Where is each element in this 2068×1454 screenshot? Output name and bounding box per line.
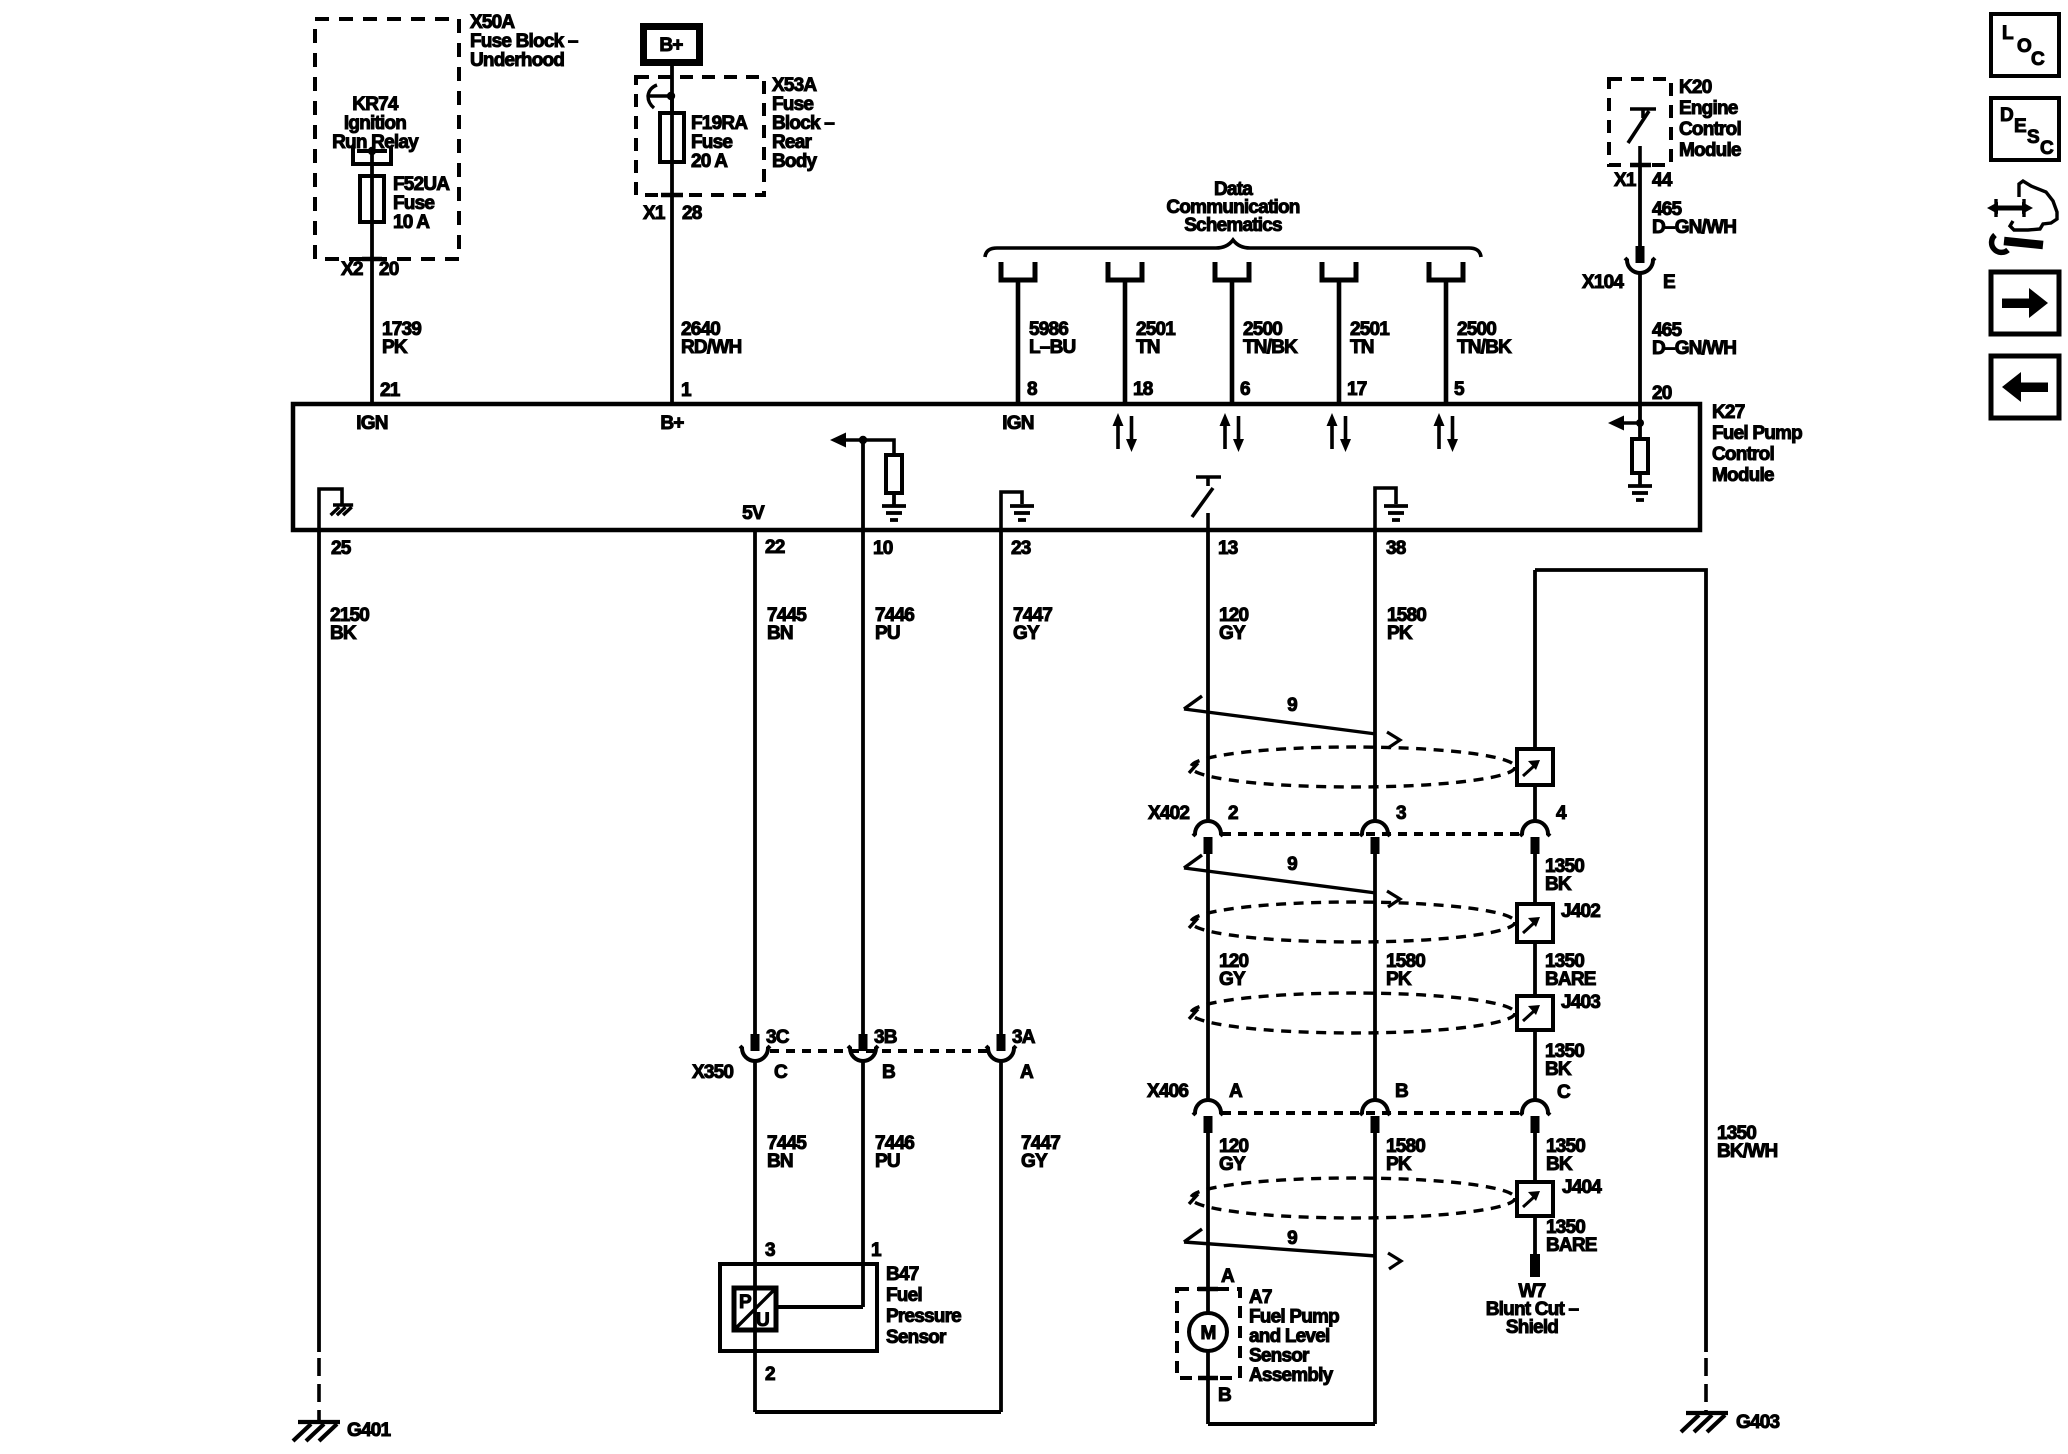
icon next arrow box — [1991, 272, 2059, 334]
pin 10 internal output arrow — [830, 433, 894, 456]
X53A feed hook — [647, 85, 675, 108]
svg-text:D–GN/WH: D–GN/WH — [1652, 338, 1736, 359]
svg-text:20 A: 20 A — [691, 151, 728, 172]
label 1580 PK mid — [1386, 951, 1425, 990]
svg-text:GY: GY — [1013, 623, 1040, 644]
wire 2500 TN/BK — [1444, 280, 1449, 406]
svg-text:G403: G403 — [1736, 1412, 1780, 1433]
svg-text:S: S — [2027, 127, 2039, 148]
svg-text:PK: PK — [1386, 969, 1412, 990]
fuse F52UA — [360, 176, 384, 222]
splice (unnamed top) — [1517, 749, 1553, 785]
connector X402 terminal 3 — [1360, 821, 1390, 854]
connector X402 terminal 4 — [1520, 821, 1550, 854]
svg-text:1: 1 — [681, 380, 692, 401]
label 465 D-GN/WH — [1652, 320, 1736, 359]
svg-text:PU: PU — [875, 623, 900, 644]
splice J403 — [1517, 992, 1600, 1030]
data connector bracket at pin 17 — [1322, 262, 1356, 280]
label 1350 BK — [1545, 1041, 1584, 1080]
wire dashed to ground — [317, 1358, 321, 1420]
X50A label — [470, 12, 578, 71]
svg-text:BK: BK — [1546, 1154, 1573, 1175]
svg-text:38: 38 — [1386, 538, 1406, 559]
svg-text:A: A — [1229, 1081, 1243, 1102]
wire into motor — [1206, 1289, 1210, 1313]
wire 1350 BK (J403 to C) — [1533, 1030, 1537, 1100]
svg-text:Pressure: Pressure — [886, 1306, 961, 1327]
svg-text:K20: K20 — [1679, 77, 1712, 98]
ECM K20 dashed box — [1609, 79, 1671, 165]
wire 1580 PK lower — [1373, 1133, 1377, 1424]
svg-text:X2: X2 — [341, 259, 363, 280]
wire 2500 TN/BK — [1230, 280, 1235, 406]
label 465 D-GN/WH — [1652, 199, 1736, 238]
border ticks — [1198, 1289, 1218, 1378]
X350 pin labels 3A/A — [1012, 1027, 1036, 1083]
X1 pin 44 labels — [1614, 170, 1673, 191]
svg-text:A7: A7 — [1249, 1287, 1272, 1308]
svg-text:BK: BK — [330, 623, 357, 644]
svg-text:L: L — [2002, 23, 2014, 44]
data connector bracket at pin 8 — [1001, 262, 1035, 280]
shield drain top wire — [1535, 570, 1706, 1352]
A7 label — [1249, 1287, 1339, 1386]
relay KR74 contact symbol — [353, 147, 391, 164]
connector X350 terminal A — [986, 1034, 1016, 1061]
svg-text:Shield: Shield — [1506, 1317, 1558, 1338]
svg-text:X406: X406 — [1147, 1081, 1188, 1102]
F52UA label — [393, 174, 450, 233]
svg-text:U: U — [756, 1310, 769, 1331]
svg-text:X53A: X53A — [772, 75, 817, 96]
B47 label — [886, 1264, 961, 1348]
svg-text:B: B — [1395, 1081, 1408, 1102]
svg-text:Fuel Pump: Fuel Pump — [1712, 423, 1802, 444]
svg-text:PK: PK — [1386, 1154, 1412, 1175]
svg-text:BARE: BARE — [1546, 1235, 1597, 1256]
svg-text:BARE: BARE — [1545, 969, 1596, 990]
wire motor to return — [1206, 1351, 1210, 1424]
pin 20 internal resistor — [1632, 439, 1648, 473]
label 120 GY — [1219, 605, 1249, 644]
svg-text:3: 3 — [765, 1240, 775, 1261]
svg-text:22: 22 — [765, 537, 785, 558]
wire pin 2 down — [753, 1349, 757, 1412]
svg-text:X1: X1 — [643, 203, 666, 224]
splice J402 — [1517, 901, 1600, 942]
svg-text:X50A: X50A — [470, 12, 515, 33]
data connector bracket at pin 6 — [1215, 262, 1249, 280]
svg-text:Body: Body — [772, 151, 818, 172]
fuel pump control module K27 box — [293, 404, 1700, 530]
arrows pin 17 — [1327, 413, 1352, 452]
label 2500 TN/BK — [1457, 319, 1512, 358]
fuse block X53A dashed box — [636, 77, 764, 195]
wire 5986 L–BU — [1016, 280, 1021, 406]
connector X406 terminal B — [1360, 1100, 1390, 1133]
svg-text:18: 18 — [1133, 379, 1153, 400]
label 1350 BK — [1545, 856, 1584, 895]
fuel pump A7 dashed box — [1177, 1289, 1240, 1378]
label 7447 GY — [1013, 605, 1052, 644]
wire 465 D-GN/WH lower — [1638, 273, 1642, 406]
svg-text:Schematics: Schematics — [1184, 215, 1282, 236]
wire 2150 BK — [317, 530, 321, 1352]
connector X350 terminal C — [740, 1034, 770, 1061]
svg-text:1: 1 — [871, 1240, 882, 1261]
connector X406 dashed line — [1222, 1111, 1521, 1115]
X53A label — [772, 75, 834, 172]
pin 20 resistor ground — [1628, 473, 1652, 500]
svg-text:C: C — [1557, 1082, 1571, 1103]
svg-text:D–GN/WH: D–GN/WH — [1652, 217, 1736, 238]
wire 7446 PU lower — [861, 1061, 865, 1307]
svg-text:J403: J403 — [1561, 992, 1600, 1013]
svg-text:O: O — [2017, 36, 2031, 57]
label 1580 PK — [1386, 1136, 1425, 1175]
label 5986 L–BU — [1029, 319, 1075, 358]
label 1350 BK — [1546, 1136, 1585, 1175]
svg-text:44: 44 — [1652, 170, 1673, 191]
svg-text:GY: GY — [1219, 623, 1246, 644]
svg-text:B: B — [882, 1062, 895, 1083]
svg-text:TN: TN — [1136, 337, 1160, 358]
X350 pin labels 3B/B — [874, 1027, 897, 1083]
svg-text:X1: X1 — [1614, 170, 1637, 191]
label 7445 BN — [767, 1133, 807, 1172]
svg-text:Module: Module — [1712, 465, 1774, 486]
label 7445 BN — [767, 605, 807, 644]
pin 23 internal ground — [1001, 492, 1034, 528]
svg-text:Fuel Pump: Fuel Pump — [1249, 1307, 1339, 1328]
connector X350 terminal B — [848, 1034, 878, 1061]
svg-text:J402: J402 — [1561, 901, 1600, 922]
ground G403 — [1681, 1412, 1780, 1433]
wire fuse to X1-28 — [670, 96, 674, 195]
label 2501 TN — [1350, 319, 1390, 358]
svg-text:Fuse: Fuse — [772, 94, 813, 115]
svg-text:F52UA: F52UA — [393, 174, 450, 195]
svg-text:Block –: Block – — [772, 113, 834, 134]
shield loop to J402 — [1189, 902, 1515, 942]
label 2150 BK — [330, 605, 369, 644]
svg-text:Fuse: Fuse — [393, 193, 434, 214]
svg-text:Fuel: Fuel — [886, 1285, 922, 1306]
svg-text:Ignition: Ignition — [344, 113, 406, 134]
twisted lead note 9 (mid) — [1184, 854, 1400, 907]
icon LOC box — [1991, 14, 2059, 76]
svg-text:B+: B+ — [660, 413, 684, 434]
return wire bottom — [755, 1410, 1001, 1414]
connector X104 — [1625, 246, 1655, 273]
wire 1580 PK mid — [1373, 854, 1377, 1100]
border tick — [661, 193, 683, 198]
K20 label — [1679, 77, 1741, 161]
svg-text:X402: X402 — [1148, 803, 1189, 824]
pin 13 internal switch — [1192, 477, 1221, 528]
motor M — [1189, 1313, 1227, 1351]
label 2500 TN/BK — [1243, 319, 1298, 358]
svg-text:3B: 3B — [874, 1027, 897, 1048]
svg-text:Control: Control — [1712, 444, 1774, 465]
svg-text:G401: G401 — [347, 1420, 392, 1441]
svg-text:13: 13 — [1218, 538, 1238, 559]
K27 label — [1712, 402, 1802, 486]
pin 20 internal arrow — [1608, 416, 1644, 431]
svg-text:2: 2 — [765, 1364, 775, 1385]
wire dashed to G403 — [1704, 1358, 1708, 1412]
wire B+ to fuse block — [670, 64, 674, 113]
svg-text:GY: GY — [1219, 969, 1246, 990]
svg-text:9: 9 — [1287, 854, 1297, 875]
brace — [985, 240, 1481, 257]
svg-text:L–BU: L–BU — [1029, 337, 1075, 358]
wire 1580 PK pin 38 — [1373, 530, 1377, 821]
svg-text:6: 6 — [1240, 379, 1250, 400]
X1 pin 28 labels — [643, 203, 702, 224]
svg-text:BN: BN — [767, 1151, 793, 1172]
svg-text:IGN: IGN — [356, 413, 387, 434]
wire 1739 PK — [370, 259, 374, 406]
label 1350 BK/WH — [1717, 1123, 1777, 1162]
svg-text:K27: K27 — [1712, 402, 1745, 423]
svg-text:A: A — [1020, 1062, 1034, 1083]
X406 labels — [1147, 1081, 1571, 1103]
K20 driver switch symbol — [1628, 109, 1656, 165]
pin 10 internal wire — [861, 440, 865, 528]
svg-text:21: 21 — [380, 380, 401, 401]
splice J404 — [1517, 1177, 1602, 1216]
svg-text:X350: X350 — [692, 1062, 733, 1083]
svg-text:3: 3 — [1396, 803, 1406, 824]
svg-text:TN/BK: TN/BK — [1457, 337, 1512, 358]
pin 10 resistor ground — [882, 493, 906, 520]
svg-text:Underhood: Underhood — [470, 50, 564, 71]
return wire bottom — [1208, 1422, 1375, 1426]
wire 2501 TN — [1337, 280, 1342, 406]
svg-text:RD/WH: RD/WH — [681, 337, 741, 358]
label 120 GY mid — [1219, 951, 1249, 990]
svg-text:Module: Module — [1679, 140, 1741, 161]
svg-text:C: C — [774, 1062, 788, 1083]
svg-text:GY: GY — [1021, 1151, 1048, 1172]
svg-text:20: 20 — [379, 259, 399, 280]
svg-text:28: 28 — [682, 203, 702, 224]
svg-text:TN/BK: TN/BK — [1243, 337, 1298, 358]
wire 1350 BARE (J402 to J403) — [1533, 942, 1537, 996]
svg-text:8: 8 — [1027, 379, 1037, 400]
pin 10 internal resistor — [886, 455, 902, 493]
svg-text:BK: BK — [1545, 1059, 1572, 1080]
shield wire upper — [1533, 570, 1537, 749]
wire 2640 RD/WH — [670, 195, 674, 406]
svg-text:17: 17 — [1347, 379, 1367, 400]
border tick — [362, 257, 382, 262]
KR74 label — [332, 94, 419, 153]
connector X406 terminal C — [1520, 1100, 1550, 1133]
svg-text:C: C — [2031, 49, 2045, 70]
svg-text:2: 2 — [1228, 803, 1238, 824]
pin 38 internal ground — [1375, 488, 1408, 528]
svg-text:IGN: IGN — [1002, 413, 1033, 434]
svg-text:Engine: Engine — [1679, 98, 1738, 119]
svg-text:and Level: and Level — [1249, 1326, 1329, 1347]
fuel pressure sensor B47 box — [720, 1264, 877, 1351]
svg-text:9: 9 — [1287, 695, 1297, 716]
arrows pin 5 — [1434, 413, 1459, 452]
svg-text:5V: 5V — [742, 503, 765, 524]
svg-text:4: 4 — [1556, 803, 1567, 824]
svg-text:C: C — [2040, 138, 2054, 159]
wire 120 GY lower — [1206, 1133, 1210, 1289]
svg-text:PK: PK — [1387, 623, 1413, 644]
X104 labels — [1582, 272, 1675, 293]
connector X406 terminal A — [1193, 1100, 1223, 1133]
svg-text:BN: BN — [767, 623, 793, 644]
wire 7447 GY pin 23 — [999, 530, 1003, 1036]
svg-text:Fuse: Fuse — [691, 132, 732, 153]
label 1350 BARE — [1546, 1217, 1597, 1256]
arrows pin 18 — [1113, 413, 1138, 452]
svg-text:Assembly: Assembly — [1249, 1365, 1334, 1386]
X2 pin 20 labels — [341, 259, 399, 280]
label 7446 PU — [875, 1133, 914, 1172]
X402 labels — [1148, 803, 1567, 824]
svg-text:20: 20 — [1652, 383, 1672, 404]
svg-text:B+: B+ — [659, 35, 683, 56]
label 7446 PU — [875, 605, 914, 644]
wire 120 GY pin 13 — [1206, 530, 1210, 821]
arrows pin 6 — [1220, 413, 1245, 452]
pin 25 internal chassis ground — [319, 489, 353, 528]
label 120 GY — [1219, 1136, 1249, 1175]
svg-text:P: P — [739, 1292, 752, 1313]
svg-text:D: D — [2000, 105, 2013, 126]
wire 1350 BK (4 to J402) — [1533, 854, 1537, 904]
battery B+ symbol — [644, 27, 700, 63]
icon service tool — [1987, 181, 2057, 252]
connector X402 dashed line — [1222, 832, 1521, 836]
svg-text:B47: B47 — [886, 1264, 919, 1285]
svg-text:Run Relay: Run Relay — [332, 132, 419, 153]
svg-text:Sensor: Sensor — [1249, 1346, 1310, 1367]
wire 2501 TN — [1123, 280, 1128, 406]
wire 7445 BN lower — [753, 1061, 757, 1264]
pin 20 internal wire — [1638, 404, 1642, 439]
label 7447 GY — [1021, 1133, 1060, 1172]
svg-text:10: 10 — [873, 538, 893, 559]
shield loop to J404 — [1189, 1178, 1515, 1218]
wire 7446 PU pin 10 — [861, 530, 865, 1036]
svg-text:E: E — [1663, 272, 1675, 293]
svg-text:BK/WH: BK/WH — [1717, 1141, 1777, 1162]
svg-text:23: 23 — [1011, 538, 1031, 559]
shield loop to J403 — [1189, 993, 1515, 1033]
twisted lead note 9 (bottom) — [1184, 1228, 1401, 1269]
icon back arrow box — [1991, 356, 2059, 418]
fuse block X50A dashed box — [315, 19, 459, 259]
svg-text:F19RA: F19RA — [691, 113, 748, 134]
wire 120 GY mid — [1206, 854, 1210, 1100]
svg-text:X104: X104 — [1582, 272, 1624, 293]
svg-text:Sensor: Sensor — [886, 1327, 947, 1348]
wire pin 3 through sensor — [753, 1264, 757, 1349]
svg-text:A: A — [1221, 1266, 1235, 1287]
svg-text:Rear: Rear — [772, 132, 812, 153]
wire relay to fuse — [370, 151, 374, 259]
wire 1350 BK (C to J404) — [1533, 1133, 1537, 1182]
wire 465 D-GN/WH upper — [1638, 165, 1642, 248]
svg-text:9: 9 — [1287, 1228, 1297, 1249]
svg-text:GY: GY — [1219, 1154, 1246, 1175]
fuse F19RA — [660, 113, 684, 162]
data communication schematics label — [1166, 179, 1299, 236]
X350 pin labels 3C/C — [766, 1027, 790, 1083]
wire 7447 GY lower — [999, 1061, 1003, 1412]
wire pin1 to transducer — [776, 1305, 863, 1309]
icon DESC box — [1991, 98, 2059, 160]
bottom pin labels — [331, 537, 1406, 559]
ground G401 — [293, 1420, 392, 1441]
svg-text:PK: PK — [382, 337, 408, 358]
svg-text:J404: J404 — [1562, 1177, 1602, 1198]
label 2501 TN — [1136, 319, 1176, 358]
twisted lead note 9 (top) — [1184, 695, 1400, 748]
svg-text:TN: TN — [1350, 337, 1374, 358]
svg-text:5: 5 — [1454, 379, 1465, 400]
svg-text:Control: Control — [1679, 119, 1741, 140]
svg-text:PU: PU — [875, 1151, 900, 1172]
wire splice to X402-4 — [1533, 785, 1537, 821]
connector X402 terminal 2 — [1193, 821, 1223, 854]
svg-text:3A: 3A — [1012, 1027, 1036, 1048]
wire 7445 BN pin 22 — [753, 530, 757, 1036]
blunt cut W7 terminal — [1530, 1254, 1540, 1277]
label 1350 BARE — [1545, 951, 1596, 990]
svg-text:10 A: 10 A — [393, 212, 430, 233]
label 2640 RD/WH — [681, 319, 741, 358]
svg-text:3C: 3C — [766, 1027, 790, 1048]
svg-text:Fuse Block –: Fuse Block – — [470, 31, 578, 52]
label 1739 PK — [382, 319, 421, 358]
F19RA label — [691, 113, 748, 172]
B47 P/U transducer — [734, 1288, 776, 1331]
data connector bracket at pin 18 — [1108, 262, 1142, 280]
label 1580 PK — [1387, 605, 1426, 644]
svg-text:B: B — [1218, 1385, 1231, 1406]
svg-text:25: 25 — [331, 538, 352, 559]
W7 label — [1486, 1281, 1579, 1338]
shield loop to splice (top) — [1189, 747, 1515, 787]
data connector bracket at pin 5 — [1429, 262, 1463, 280]
connector X350 dashed line — [770, 1049, 988, 1053]
svg-text:E: E — [2014, 116, 2026, 137]
wire 1350 BARE to W7 — [1533, 1216, 1537, 1258]
svg-text:KR74: KR74 — [352, 94, 399, 115]
svg-text:BK: BK — [1545, 874, 1572, 895]
svg-text:M: M — [1200, 1323, 1215, 1344]
